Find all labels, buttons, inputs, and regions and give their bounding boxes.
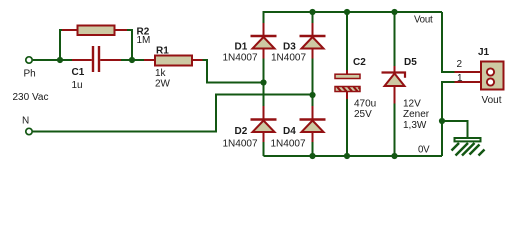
node top D3 [309,9,315,15]
node bottom C2 [344,153,350,159]
wire C2 bottom [346,99,348,157]
diode D2 [251,106,277,142]
node AC2 junction [309,92,315,98]
svg-text:1,3W: 1,3W [403,120,427,131]
node top D5 [391,9,397,15]
wire C1 to node B [121,59,133,61]
node top C2 [344,9,350,15]
svg-text:D1: D1 [235,42,248,53]
wire N to bridge AC2 node [33,95,313,132]
wire D5 top [394,12,396,67]
svg-text:2: 2 [457,59,463,70]
node bottom D5 [391,153,397,159]
svg-text:C2: C2 [353,57,366,68]
wire node A up to R2 row [60,30,63,60]
svg-text:1k: 1k [155,68,167,79]
svg-text:R1: R1 [156,46,169,57]
resistor R1 [144,56,204,66]
svg-text:1N4007: 1N4007 [223,139,258,150]
zener diode D5 [382,66,406,104]
node AC1 junction [260,79,266,85]
terminal Ph [26,57,32,63]
capacitor C2 [335,70,360,99]
terminal N [26,128,32,134]
diode D4 [300,106,326,142]
wire R1 to bridge AC1 node [203,60,264,83]
resistor R2 [62,26,127,36]
wire C2 top [346,12,348,71]
svg-text:1N4007: 1N4007 [223,53,258,64]
top rail Vout [264,12,443,23]
svg-text:2W: 2W [155,79,171,90]
svg-text:1N4007: 1N4007 [271,139,306,150]
svg-text:25V: 25V [354,109,372,120]
diode D1 [251,23,277,59]
connector J1 [455,62,504,90]
node bottom D4 [309,153,315,159]
ground [452,138,485,156]
bottom rail 0V [264,155,443,157]
svg-text:Ph: Ph [24,69,36,80]
node ground branch [439,118,445,124]
diode D3 [300,23,326,59]
svg-text:J1: J1 [478,47,490,58]
wire D1-D2 column middle [263,59,265,107]
wire Ph to node A [33,59,60,61]
svg-text:D3: D3 [283,42,296,53]
wire D2 to bottom rail [263,142,265,157]
wire top rail down to J1 pin 2 [442,12,455,72]
svg-text:1M: 1M [137,35,151,46]
svg-text:0V: 0V [418,145,430,156]
wire D4 to bottom rail [312,142,314,157]
wire J1 pin 1 down to 0V [442,82,455,156]
svg-text:D4: D4 [283,126,296,137]
wire R2 right corner down to node B [127,30,133,60]
wire to ground [442,121,468,138]
svg-text:470u: 470u [354,99,376,110]
svg-text:Vout: Vout [482,95,502,106]
svg-text:230 Vac: 230 Vac [13,92,49,103]
svg-text:Zener: Zener [403,109,430,120]
svg-text:D5: D5 [404,57,417,68]
node B junction [129,57,135,63]
svg-text:C1: C1 [72,67,85,78]
wire D3-D4 column middle [312,59,314,107]
wire node A to C1 [60,59,73,61]
svg-text:Vout: Vout [414,15,433,26]
wire D5 bottom [394,103,396,156]
wire D3 top [312,12,314,24]
svg-text:12V: 12V [403,99,421,110]
svg-text:D2: D2 [235,126,248,137]
svg-text:1: 1 [457,73,463,84]
svg-text:1u: 1u [72,80,83,91]
capacitor C1 [72,46,121,72]
svg-text:N: N [22,116,29,127]
wire node B to R1 [132,59,144,61]
node A junction [57,57,63,63]
svg-text:1N4007: 1N4007 [271,53,306,64]
